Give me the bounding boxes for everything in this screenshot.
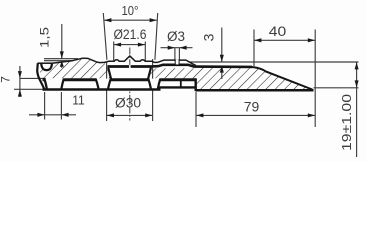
centerline (dash-dot) <box>129 48 131 121</box>
40/79 right extension line <box>314 30 316 128</box>
svg-text:3: 3 <box>201 33 217 41</box>
notch1 right wall <box>61 79 64 89</box>
40 left extension line <box>253 30 255 67</box>
svg-text:Ø21.6: Ø21.6 <box>114 27 147 42</box>
notch3 right wall <box>158 79 161 89</box>
Ø3 dimension line with outside arrows <box>161 47 193 49</box>
19 bottom extension line <box>314 87 359 89</box>
11 dimension line with outside arrows <box>29 114 76 116</box>
notch2 white <box>96 79 111 89</box>
Ø3 hole slot in boss <box>176 60 179 65</box>
hatch: right upper plate <box>149 68 197 78</box>
7 dimension vertical line with outside arrows <box>19 66 21 97</box>
Ø30 extension lines <box>106 62 108 121</box>
notch3 left wall / cavity right wall <box>148 68 151 89</box>
box divider wall <box>180 81 182 88</box>
11 extension lines <box>44 92 46 120</box>
Ø30 dimension line <box>107 114 153 116</box>
7 extension lines <box>20 77 46 79</box>
10deg left extension line <box>103 13 107 60</box>
left cup ledge <box>38 62 53 64</box>
notch2 right wall / cavity left wall <box>108 68 111 89</box>
top surface profile (thin) <box>52 56 196 66</box>
crown thin line B <box>44 60 73 62</box>
cavity ceiling band (deck under dome) <box>108 65 152 68</box>
svg-text:79: 79 <box>244 100 260 115</box>
hatch: wedge section <box>196 67 312 89</box>
svg-text:19±1.00: 19±1.00 <box>339 94 354 151</box>
svg-text:7: 7 <box>0 76 13 83</box>
79 dimension line <box>196 114 315 116</box>
left cup groove <box>41 63 52 70</box>
cavity white interior <box>108 68 151 89</box>
svg-text:Ø3: Ø3 <box>167 29 185 44</box>
Ø21.6 extension lines <box>113 42 115 61</box>
ceiling line segments <box>43 78 45 81</box>
taper (wedge) top edge <box>250 67 312 90</box>
bottom skin right <box>196 89 314 92</box>
hatch: left upper plate <box>39 58 111 78</box>
10deg dimension line <box>104 19 157 21</box>
cells white band under box <box>161 81 196 86</box>
1.5 dimension vertical line <box>61 24 63 59</box>
notch2 left wall <box>96 79 99 89</box>
bottom skin left <box>43 88 161 90</box>
notch1 left wall <box>44 79 47 89</box>
svg-text:40: 40 <box>269 24 287 39</box>
notch3 white <box>148 79 161 89</box>
svg-text:1,5: 1,5 <box>38 27 52 48</box>
10deg right extension line <box>155 13 158 60</box>
19 dimension vertical line <box>356 62 358 157</box>
79 left extension line <box>195 92 197 127</box>
svg-text:11: 11 <box>72 93 85 108</box>
outer left wall <box>37 63 44 89</box>
3 dimension vertical line with outside arrows <box>221 28 223 62</box>
cells white band left <box>44 81 161 88</box>
box right end wall <box>194 78 196 91</box>
svg-text:Ø30: Ø30 <box>115 96 141 111</box>
crown thin line A <box>44 58 78 60</box>
bottom skin under box (raised floor) <box>159 86 197 88</box>
notch1 white <box>45 79 64 89</box>
40 dimension line <box>254 39 315 41</box>
Ø21.6 dimension line <box>114 44 146 46</box>
Ø3 extension lines <box>174 48 176 60</box>
boss-top reference line (3 dim upper, also 19 top reference) <box>189 61 359 63</box>
svg-text:10°: 10° <box>122 3 139 18</box>
deck line right of cavity (under dip and boss) <box>152 65 253 67</box>
